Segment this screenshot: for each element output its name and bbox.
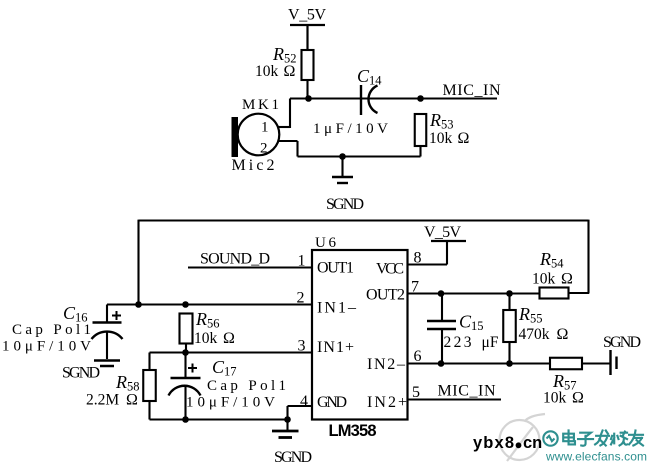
- svg-text:1μF/10V: 1μF/10V: [313, 121, 388, 137]
- svg-text:1: 1: [298, 253, 306, 270]
- svg-text:SOUND_D: SOUND_D: [200, 251, 270, 268]
- svg-text:VCC: VCC: [376, 261, 404, 278]
- svg-text:470k: 470k: [519, 326, 550, 343]
- svg-text:www.elecfans.com: www.elecfans.com: [545, 450, 647, 464]
- svg-text:V_5V: V_5V: [424, 224, 461, 241]
- svg-text:7: 7: [411, 279, 419, 296]
- svg-text:2: 2: [297, 290, 305, 307]
- svg-text:2: 2: [260, 141, 268, 157]
- svg-text:3: 3: [298, 338, 306, 355]
- svg-text:MK1: MK1: [242, 97, 279, 113]
- svg-text:10k: 10k: [543, 390, 567, 407]
- svg-text:MIC_IN: MIC_IN: [438, 383, 496, 400]
- svg-text:OUT2: OUT2: [366, 287, 405, 304]
- svg-text:1: 1: [261, 120, 269, 136]
- svg-text:SGND: SGND: [274, 449, 312, 466]
- svg-text:10k: 10k: [532, 271, 556, 288]
- svg-text:Ω: Ω: [557, 326, 569, 343]
- svg-text:SGND: SGND: [326, 196, 364, 213]
- svg-text:223: 223: [444, 334, 472, 351]
- svg-text:Ω: Ω: [126, 392, 138, 409]
- svg-text:2.2M: 2.2M: [86, 392, 119, 409]
- svg-text:4: 4: [300, 393, 308, 410]
- svg-text:Mic2: Mic2: [232, 157, 275, 174]
- svg-text:Ω: Ω: [284, 63, 296, 80]
- svg-text:μF: μF: [482, 334, 499, 351]
- svg-text:IN1+: IN1+: [317, 339, 354, 356]
- svg-text:V_5V: V_5V: [288, 7, 326, 24]
- svg-text:SGND: SGND: [603, 334, 641, 351]
- svg-text:cn: cn: [523, 434, 542, 452]
- svg-text:Ω: Ω: [572, 390, 584, 407]
- svg-text:5: 5: [412, 384, 420, 401]
- svg-text:MIC_IN: MIC_IN: [443, 82, 501, 99]
- svg-text:GND: GND: [317, 394, 347, 411]
- svg-text:6: 6: [414, 348, 422, 365]
- svg-text:10k: 10k: [429, 130, 453, 147]
- svg-text:LM358: LM358: [329, 422, 377, 440]
- svg-text:Ω: Ω: [458, 130, 470, 147]
- svg-text:Ω: Ω: [223, 330, 235, 347]
- svg-text:OUT1: OUT1: [317, 260, 354, 277]
- svg-text:U6: U6: [315, 235, 337, 251]
- svg-text:8: 8: [414, 250, 422, 267]
- svg-text:10k: 10k: [194, 330, 218, 347]
- svg-text:SGND: SGND: [62, 365, 100, 382]
- svg-text:Ω: Ω: [561, 271, 573, 288]
- svg-text:10k: 10k: [255, 63, 279, 80]
